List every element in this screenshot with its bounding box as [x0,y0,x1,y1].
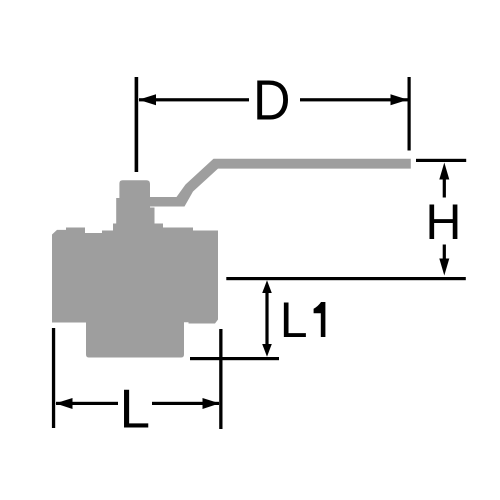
svg-text:L: L [280,292,308,348]
svg-text:L: L [120,378,151,440]
svg-text:H: H [425,194,461,250]
svg-text:D: D [253,69,291,133]
